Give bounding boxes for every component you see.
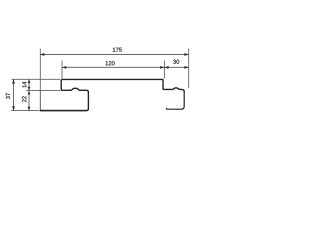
profile left edge: [39, 91, 41, 110]
extension line flange right (x=164.4): [163, 61, 165, 79]
dimension line 30: [164, 66, 188, 68]
label 30: [173, 60, 179, 64]
extension line flange left (x=62): [61, 61, 63, 79]
hook right edge and bottom: [166, 91, 184, 109]
label 14: [22, 82, 26, 88]
extension line left overall (x=40): [39, 49, 41, 91]
extension line bottom (y=110.6): [11, 110, 39, 112]
label 120: [106, 61, 115, 65]
extension line top (y=79.3): [12, 78, 61, 80]
label 175: [113, 48, 122, 52]
label 37: [6, 93, 10, 99]
flange underside with hump, box right edge, box bottom: [40, 88, 88, 110]
dimension line 175: [40, 53, 189, 55]
box bottom edge: [40, 110, 87, 112]
extension line mid step (y=90.6): [26, 90, 60, 92]
flange: left cap, top edge, right step, ledge with hump, into hook top: [61, 79, 184, 92]
extension line right overall (x=188.7): [188, 49, 190, 88]
label 22: [22, 96, 26, 102]
dimension line 22: [28, 91, 30, 111]
dimension line 14: [28, 79, 30, 90]
dimension line 120: [62, 66, 164, 68]
dimension line 37: [13, 79, 15, 110]
